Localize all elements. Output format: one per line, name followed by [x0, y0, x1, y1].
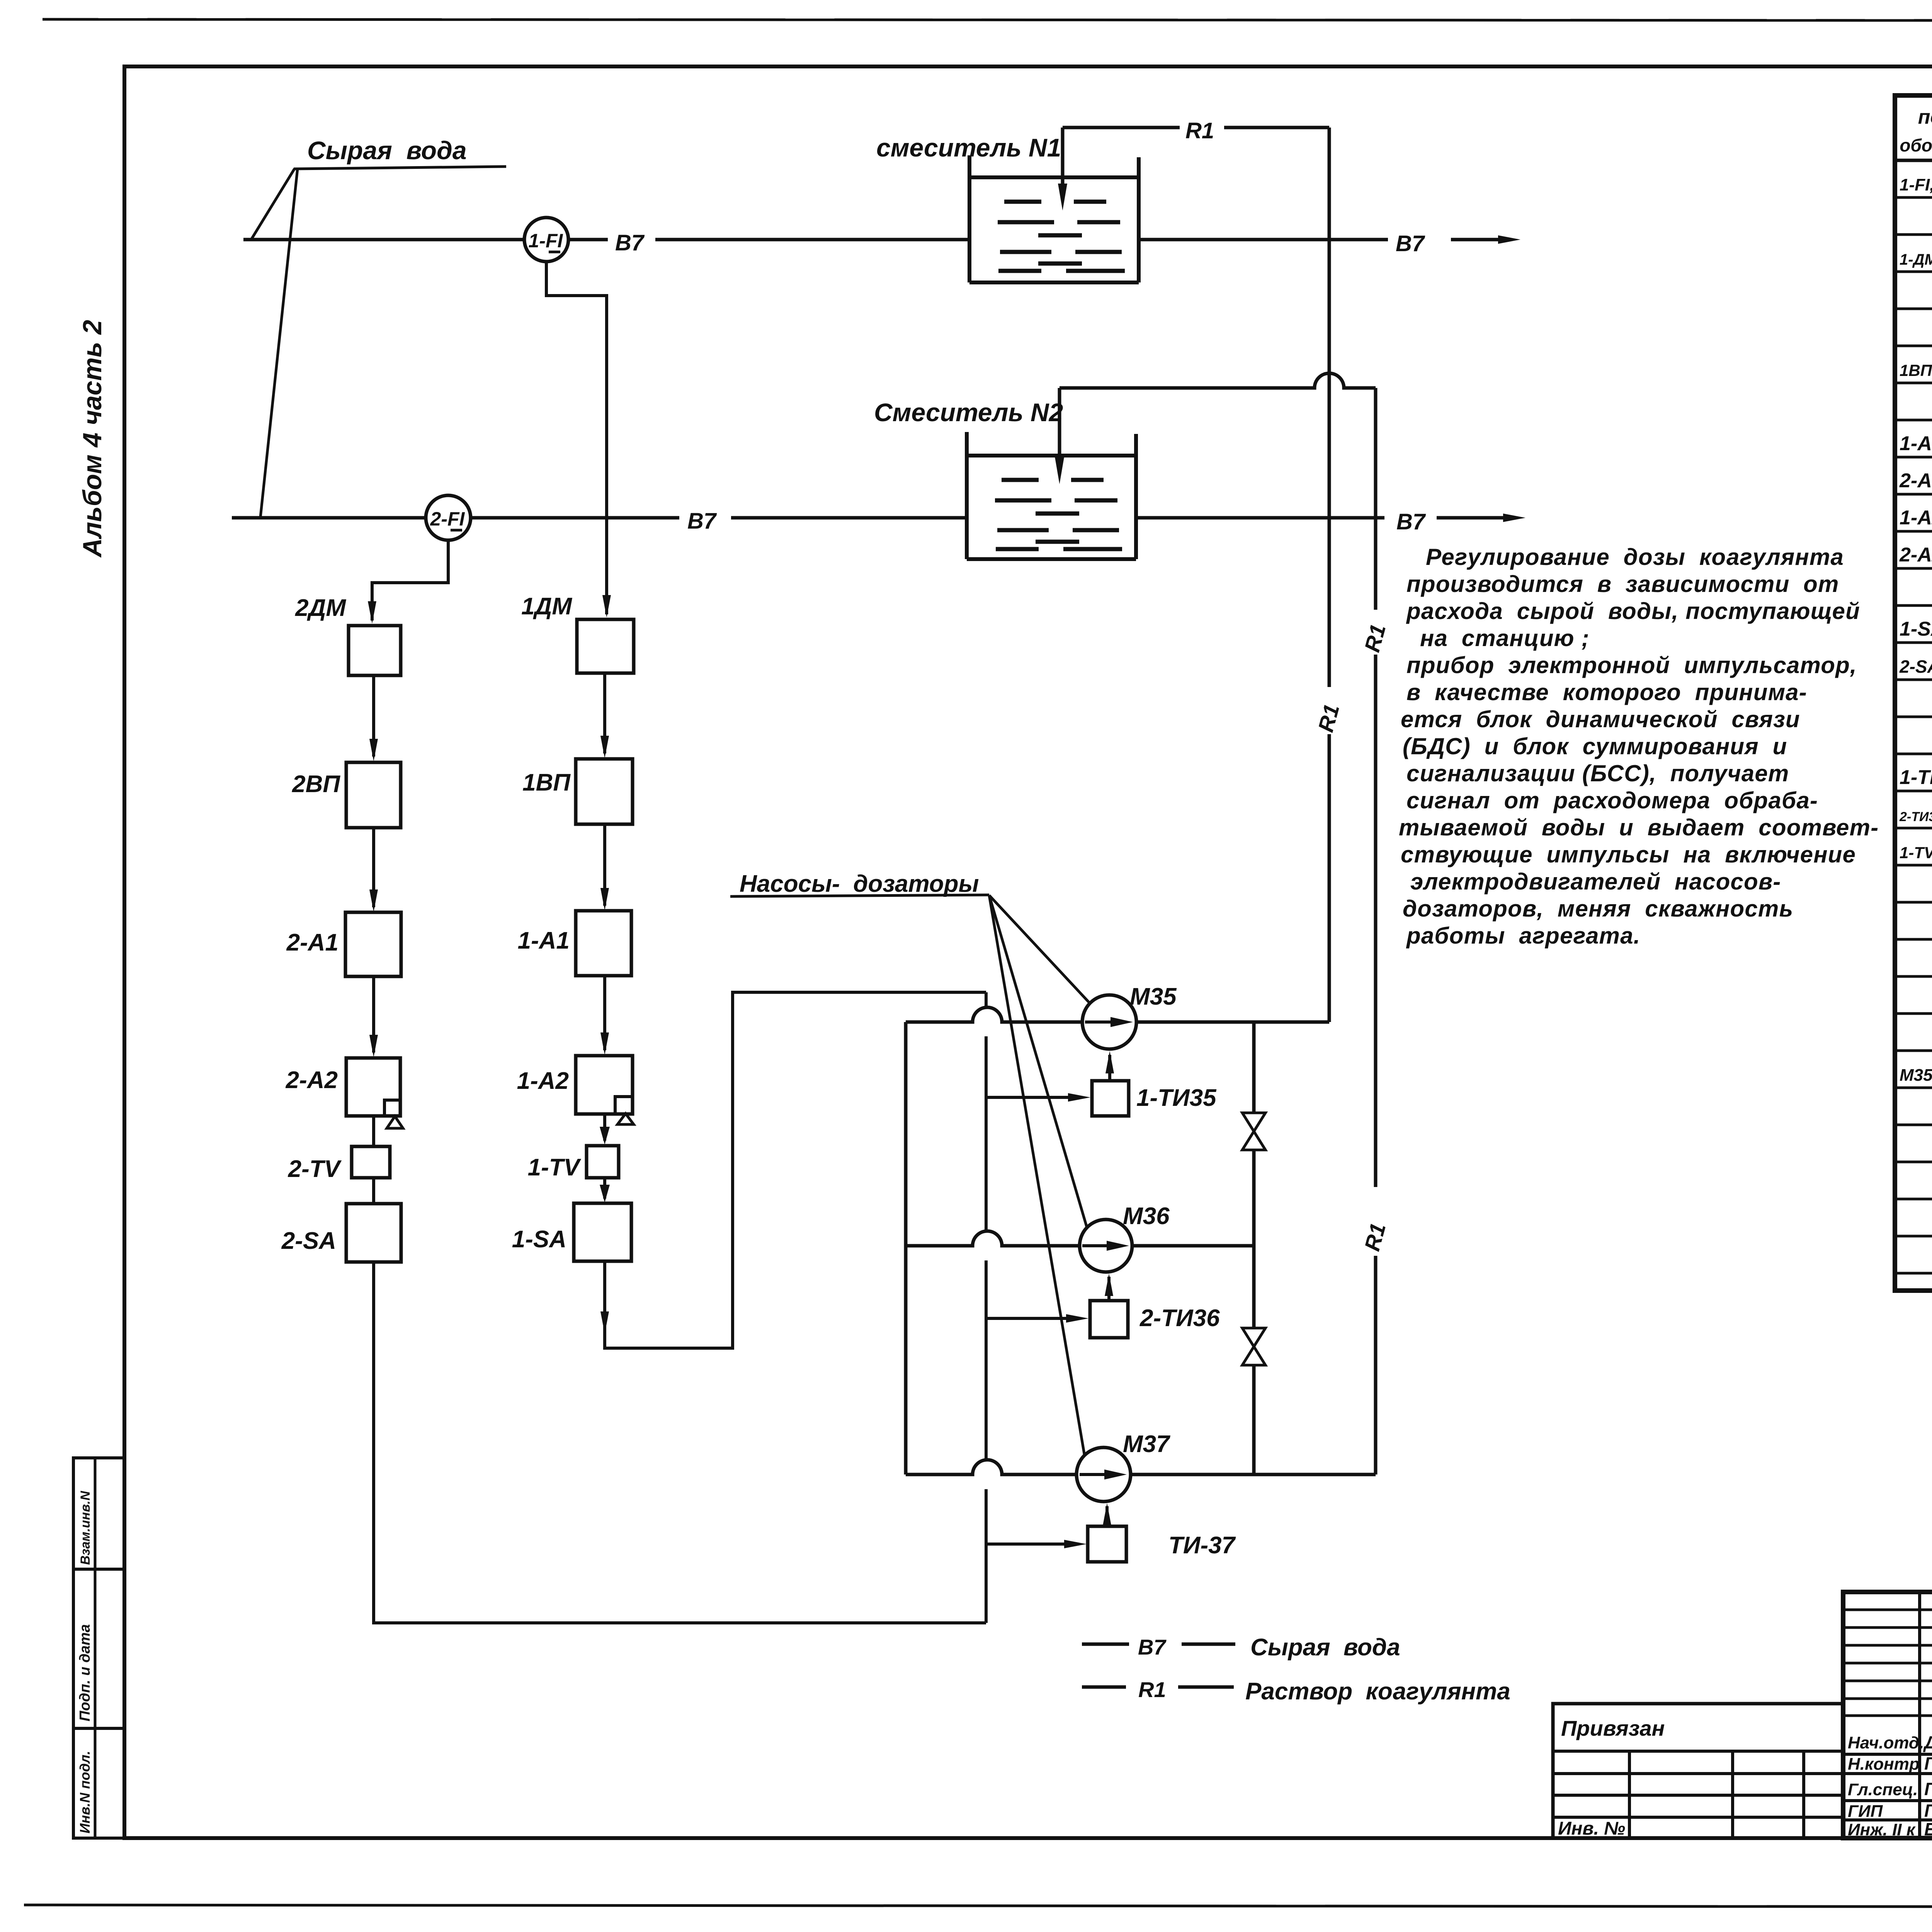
- alarm tag on block 2-А2: [384, 1100, 403, 1128]
- wire 1ВП to 1-А1: [600, 824, 609, 910]
- label R1 rotated on riser 1: [1313, 702, 1344, 735]
- svg-text:В7: В7: [687, 509, 717, 534]
- wire: bus branch to 2-ТИ36: [986, 1314, 1088, 1323]
- label 1-TV: [528, 1154, 582, 1181]
- svg-text:поз.: поз.: [1918, 106, 1932, 128]
- svg-text:R1: R1: [1138, 1677, 1166, 1702]
- svg-text:Елизарова: Елизарова: [1924, 1819, 1932, 1839]
- label 2-ТИ36: [1139, 1305, 1220, 1332]
- vertical album caption: Альбом 4 часть 2: [78, 320, 107, 558]
- svg-text:1ВП: 1ВП: [522, 769, 571, 796]
- wire 2-TV to 2-SA: [372, 1178, 375, 1204]
- svg-text:1-TV: 1-TV: [528, 1154, 582, 1181]
- svg-text:2-TV: 2-TV: [288, 1156, 342, 1182]
- svg-text:Инв.N подл.: Инв.N подл.: [77, 1751, 93, 1833]
- label Насосы-дозаторы with leader lines: [730, 871, 1090, 1456]
- svg-text:М37: М37: [1123, 1431, 1170, 1458]
- svg-text:обознач.: обознач.: [1900, 135, 1932, 155]
- pump M36: [1080, 1219, 1132, 1272]
- alarm tag on block 1-А2: [615, 1097, 634, 1124]
- label Смеситель N2: [874, 398, 1063, 427]
- wire: pump M37 line (hops over control bus): [906, 1460, 1376, 1475]
- legend entry B7: Сырая вода: [1082, 1634, 1400, 1661]
- label 2-А1: [286, 929, 338, 956]
- svg-text:Гусева: Гусева: [1924, 1753, 1932, 1774]
- svg-text:Взам.инв.N: Взам.инв.N: [78, 1490, 93, 1565]
- svg-text:1ВП,2ВП: 1ВП,2ВП: [1900, 361, 1932, 379]
- block 2-TV (transformer 2): [352, 1146, 390, 1178]
- svg-text:сигнал от расходомера обраб: сигнал от расходомера обраба-: [1406, 787, 1818, 813]
- svg-text:работы агрегата.: работы агрегата.: [1406, 923, 1641, 949]
- svg-text:ется блок динамической связ: ется блок динамической связи: [1401, 706, 1800, 732]
- thyristor unit ТИ-37: [1088, 1526, 1126, 1562]
- svg-text:1-FI: 1-FI: [529, 230, 563, 252]
- wire: R1 riser 1 (mixer N1 to pump M35 discharge): [1328, 128, 1331, 1022]
- svg-text:В7: В7: [1396, 509, 1426, 534]
- svg-text:расхода сырой воды, поступаю: расхода сырой воды, поступающей: [1406, 598, 1860, 624]
- wire 1-А2 to 1-TV: [600, 1114, 610, 1145]
- block 2ДМ (diaphragm transmitter 2): [349, 626, 401, 675]
- svg-text:1-ТИ35: 1-ТИ35: [1900, 766, 1932, 789]
- svg-text:дозаторов, меняя скважность: дозаторов, меняя скважность: [1403, 896, 1793, 922]
- svg-text:прибор электронной импульсат: прибор электронной импульсатор,: [1406, 652, 1857, 678]
- svg-text:2-ТИ36,ТИ-37: 2-ТИ36,ТИ-37: [1899, 810, 1932, 824]
- wire: valve bypass line between pump discharge lines: [1252, 1022, 1256, 1475]
- pump M37: [1077, 1447, 1131, 1502]
- title block signer names: [1848, 1732, 1932, 1839]
- svg-text:(БДС) и блок суммирования: (БДС) и блок суммирования и: [1403, 733, 1787, 759]
- svg-text:1-FI,2-FI: 1-FI,2-FI: [1900, 175, 1932, 194]
- label R1 rotated on riser 2 upper: [1360, 622, 1390, 655]
- wire: 1-ТИ35 to pump M35: [1105, 1051, 1114, 1081]
- wire 2ДМ to 2ВП: [369, 675, 378, 761]
- wire: signal 1-FI to 1ДМ: [546, 262, 611, 617]
- wire: 2-SA output down and right to control bus: [374, 1262, 986, 1623]
- svg-text:R1: R1: [1185, 118, 1214, 143]
- wire: flow line 1 after mixer N1 with B7 outlet arrow: [1139, 231, 1520, 256]
- svg-text:1-TV,2-TV: 1-TV,2-TV: [1900, 844, 1932, 862]
- wire: pump M35 line (hops over control bus): [906, 1007, 1329, 1022]
- wire 2-А1 to 2-А2: [369, 976, 378, 1057]
- wire: raw water flow line 2 (B7): [232, 516, 967, 520]
- svg-text:Гл.спец.: Гл.спец.: [1848, 1780, 1918, 1799]
- svg-text:1-А1: 1-А1: [1900, 432, 1932, 455]
- svg-text:ТИ-37: ТИ-37: [1168, 1532, 1236, 1559]
- scan edge top line: [43, 19, 1932, 21]
- valve 2 (between M36 and M37 lines): [1242, 1328, 1265, 1365]
- label М37: [1123, 1431, 1170, 1458]
- label Сырая вода with leader: [251, 136, 506, 517]
- label 1-ТИ35: [1136, 1085, 1217, 1111]
- svg-text:Подп. и дата: Подп. и дата: [77, 1624, 93, 1721]
- svg-text:2-А2: 2-А2: [1899, 544, 1932, 566]
- wire: signal 2-FI to 2ДМ: [368, 540, 448, 624]
- svg-text:производится в зависимости: производится в зависимости от: [1406, 571, 1839, 597]
- svg-text:Привязан: Привязан: [1561, 1716, 1665, 1740]
- wire: control bus vertical (feeds thyristor units): [985, 992, 988, 1623]
- svg-text:на станцию ;: на станцию ;: [1420, 625, 1590, 651]
- svg-text:1ДМ: 1ДМ: [521, 593, 572, 620]
- wire 1ДМ to 1ВП: [600, 673, 609, 758]
- block 1-SA (manual control 1): [574, 1203, 631, 1261]
- mixer tank N2 (Смеситель N2): [967, 432, 1136, 559]
- svg-text:тываемой воды и выдает соо: тываемой воды и выдает соответ-: [1399, 815, 1879, 840]
- block 2-А2 (summation unit 2): [346, 1058, 400, 1116]
- svg-text:Раствор коагулянта: Раствор коагулянта: [1245, 1678, 1510, 1705]
- block 1ВП (recorder 1): [576, 759, 633, 824]
- svg-text:Насосы- дозаторы: Насосы- дозаторы: [740, 871, 979, 897]
- svg-text:смеситель N1: смеситель N1: [876, 133, 1061, 162]
- thyristor unit 2-ТИ36: [1090, 1301, 1128, 1338]
- svg-text:1-А2: 1-А2: [1900, 507, 1932, 529]
- block 1-А1 (dynamic link unit 1): [576, 911, 631, 976]
- svg-text:1-А1: 1-А1: [518, 927, 570, 954]
- label R1 rotated on riser 2 lower: [1360, 1221, 1390, 1253]
- wire: pump suction manifold: [904, 1022, 908, 1475]
- label смеситель N1: [876, 133, 1061, 162]
- svg-text:2-SA: 2-SA: [281, 1228, 336, 1254]
- svg-text:Сырая вода: Сырая вода: [307, 136, 467, 165]
- block 1ДМ (diaphragm transmitter 1): [577, 619, 634, 673]
- label 2-А2: [286, 1067, 338, 1094]
- left stamp box Подп. и дата: [73, 1569, 124, 1728]
- svg-text:Данилов: Данилов: [1923, 1732, 1932, 1752]
- svg-text:Нач.отд.: Нач.отд.: [1848, 1733, 1924, 1752]
- svg-text:Смеситель N2: Смеситель N2: [874, 398, 1063, 427]
- label B7 on flow line 1: [615, 230, 645, 255]
- flow indicator 2-FI: [426, 495, 471, 540]
- wire: pump M36 line (hops over control bus): [906, 1231, 1254, 1246]
- block 2ВП (recorder 2): [346, 762, 401, 828]
- wire: flow line 2 after mixer N2 with B7 outlet arrow: [1136, 509, 1526, 534]
- svg-text:ствующие импульсы на включе: ствующие импульсы на включение: [1401, 842, 1856, 867]
- svg-text:Н.контр: Н.контр: [1848, 1755, 1920, 1774]
- left stamp box Взам. инв. N: [73, 1458, 124, 1569]
- scan edge bottom line: [24, 1905, 1932, 1907]
- wire: R1 feed line to mixer N1: [1058, 128, 1329, 211]
- thyristor unit 1-ТИ35: [1092, 1081, 1129, 1116]
- label 1-А2: [517, 1068, 569, 1094]
- label 1-SA: [512, 1226, 566, 1253]
- svg-text:М36: М36: [1123, 1203, 1170, 1230]
- title block outline: [1843, 1592, 1932, 1838]
- svg-text:Сырая вода: Сырая вода: [1250, 1634, 1400, 1661]
- svg-text:М35÷М37: М35÷М37: [1900, 1066, 1932, 1085]
- svg-text:2ДМ: 2ДМ: [295, 595, 346, 621]
- wire 2ВП to 2-А1: [369, 828, 378, 912]
- wire: R1 riser 2 (mixer N2 to pump M37 discharge): [1374, 388, 1378, 1475]
- svg-text:сигнализации (БСС), получает: сигнализации (БСС), получает: [1406, 760, 1789, 786]
- svg-text:1-SA: 1-SA: [1900, 618, 1932, 640]
- note paragraph (regulation description): [1399, 544, 1879, 949]
- svg-text:2-А1: 2-А1: [286, 929, 338, 956]
- svg-text:Инж. II к: Инж. II к: [1848, 1820, 1916, 1839]
- wire 1-А1 to 1-А2: [600, 976, 609, 1055]
- attachment box Привязан: [1553, 1704, 1843, 1839]
- svg-text:Регулирование дозы коагулянт: Регулирование дозы коагулянта: [1426, 544, 1844, 570]
- svg-text:2-А2: 2-А2: [286, 1067, 338, 1094]
- wire: bus branch to ТИ-37: [986, 1540, 1087, 1548]
- svg-text:1-SA: 1-SA: [512, 1226, 566, 1253]
- legend entry R1: Раствор коагулянта: [1082, 1677, 1510, 1705]
- component table frame: [1895, 95, 1932, 1291]
- svg-text:В7: В7: [1396, 231, 1425, 256]
- mixer tank N1 (смеситель N1): [969, 155, 1139, 282]
- label М36: [1123, 1203, 1170, 1230]
- valve 1 (between M35 and M36 lines): [1242, 1113, 1265, 1150]
- svg-text:2-А1: 2-А1: [1899, 469, 1932, 492]
- svg-text:в качестве которого принима: в качестве которого принима-: [1406, 679, 1807, 705]
- label B7 on flow line 2: [687, 509, 717, 534]
- svg-text:Гольцнан: Гольцнан: [1924, 1779, 1932, 1799]
- label 1ДМ: [521, 593, 572, 620]
- table header texts: [1900, 106, 1932, 155]
- left stamp box Инв. N подл.: [73, 1728, 124, 1838]
- svg-text:ГИП: ГИП: [1848, 1802, 1883, 1821]
- svg-text:В7: В7: [615, 230, 645, 255]
- label М35: [1130, 983, 1177, 1010]
- block 2-SA (manual control 2): [346, 1204, 401, 1262]
- pump M35: [1082, 995, 1136, 1049]
- svg-text:2-FI: 2-FI: [430, 508, 465, 530]
- label 2ВП: [292, 771, 340, 798]
- wire: 1-SA output to control bus (via riser x=1896): [600, 992, 986, 1348]
- wire: ТИ-37 to pump M37: [1103, 1503, 1111, 1526]
- svg-text:1-ТИ35: 1-ТИ35: [1136, 1085, 1217, 1111]
- flow indicator 1-FI: [524, 218, 568, 262]
- label ТИ-37: [1168, 1532, 1236, 1559]
- label 2-SA: [281, 1228, 336, 1254]
- title block small revision grid: [1843, 1592, 1932, 1838]
- wire 1-TV to 1-SA: [600, 1178, 610, 1202]
- svg-text:2-ТИ36: 2-ТИ36: [1139, 1305, 1220, 1332]
- svg-text:Гусева: Гусева: [1924, 1801, 1932, 1821]
- label 2ДМ: [295, 595, 346, 621]
- table content rows: [1899, 171, 1932, 1123]
- svg-text:2-SA: 2-SA: [1899, 656, 1932, 677]
- wire 2-А2 to 2-TV: [372, 1116, 375, 1146]
- label 1-А1: [518, 927, 570, 954]
- label R1 on feed line 1: [1185, 118, 1214, 143]
- label 1ВП: [522, 769, 571, 796]
- label 2-TV: [288, 1156, 342, 1182]
- svg-text:1-А2: 1-А2: [517, 1068, 569, 1094]
- svg-text:В7: В7: [1138, 1635, 1167, 1659]
- svg-text:электродвигателей насосов-: электродвигателей насосов-: [1410, 869, 1781, 895]
- wire: bus branch to 1-ТИ35: [986, 1093, 1090, 1102]
- svg-text:Инв. №: Инв. №: [1558, 1818, 1625, 1839]
- wire: raw water flow line 1 (B7): [243, 238, 969, 241]
- block 1-TV (transformer 1): [587, 1146, 619, 1178]
- svg-text:2ВП: 2ВП: [292, 771, 340, 798]
- block 1-А2 (summation unit 1): [576, 1056, 633, 1114]
- wire: 2-ТИ36 to pump M36: [1105, 1274, 1113, 1301]
- svg-text:М35: М35: [1130, 983, 1177, 1010]
- svg-text:Альбом 4 часть 2: Альбом 4 часть 2: [78, 320, 107, 558]
- svg-text:1-ДМ.2-Дм: 1-ДМ.2-Дм: [1900, 251, 1932, 268]
- block 2-А1 (dynamic link unit 2): [345, 912, 401, 976]
- wire: R1 feed line to mixer N2 (hops over R1 riser 1): [1055, 373, 1376, 484]
